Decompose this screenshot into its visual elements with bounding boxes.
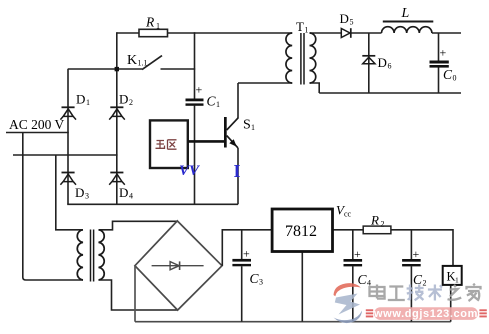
svg-text:7812: 7812 [285, 223, 317, 240]
diode D5 [341, 28, 351, 38]
svg-text:D: D [378, 55, 387, 70]
watermark text gong (work) [388, 287, 405, 301]
svg-text:R: R [145, 15, 155, 30]
watermark text ji (skill) [407, 285, 424, 301]
wire C2 tee lower [410, 266, 412, 321]
svg-text:3: 3 [85, 192, 89, 201]
regulator U1 7812 box [272, 209, 332, 252]
svg-text:0: 0 [453, 74, 457, 83]
wire ground rail bottom [135, 321, 451, 323]
switch K1.1 arm [142, 56, 162, 70]
wire top bus left segment [117, 32, 139, 34]
wire right node vertical below C1 [194, 106, 196, 205]
svg-text:VV: VV [179, 163, 201, 179]
svg-text:K: K [127, 53, 137, 68]
diode D6 [362, 56, 375, 64]
capacitor C4 plates [344, 259, 363, 262]
watermark logo swirl [334, 283, 363, 323]
diode D3 [60, 173, 76, 185]
svg-text:D: D [75, 185, 84, 200]
transistor S1 emitter arrowhead [229, 139, 237, 147]
watermark right menu mark [479, 309, 486, 317]
wire C4 tee lower [352, 266, 354, 321]
watermark left menu mark [366, 309, 373, 317]
wire node A vertical [116, 32, 118, 69]
wire right node vertical above C1 [194, 32, 196, 98]
wire D5 to L [351, 32, 382, 34]
drive block text (qu dong) [156, 140, 177, 149]
svg-text:I: I [234, 161, 241, 181]
wire T1 secondary top to D5 [310, 32, 342, 34]
svg-text:cc: cc [344, 210, 352, 219]
resistor R1 [139, 29, 168, 36]
wire negative rail to emitter [67, 203, 238, 205]
svg-text:R: R [370, 213, 379, 228]
wire 7812 output to R2 [333, 229, 364, 231]
svg-text:S: S [243, 118, 251, 133]
wire C2 tee upper [410, 230, 412, 259]
svg-text:5: 5 [350, 18, 354, 27]
inductor L core bar [383, 21, 434, 23]
svg-text:D: D [340, 11, 349, 26]
bridge rectifier diamond [135, 221, 222, 310]
transformer T1 core [301, 33, 304, 85]
capacitor C2 plates [402, 259, 421, 262]
watermark text shu (craft) [428, 285, 442, 301]
capacitor C3 plates [232, 259, 251, 262]
svg-text:2: 2 [381, 220, 385, 229]
watermark text dian (electric) [370, 285, 385, 299]
wire aux secondary bottom to bridge bottom corner [99, 280, 178, 310]
capacitor C0 plates [430, 61, 449, 64]
svg-text:4: 4 [129, 192, 133, 201]
resistor R2 [363, 226, 391, 234]
wire bridge right corner to regulator input [222, 230, 272, 266]
transformer T1 primary winding [286, 33, 292, 83]
wire T1 primary bottom to S1 collector [238, 82, 292, 84]
wire bridge left leg D1 D3 [67, 69, 69, 204]
svg-text:D: D [119, 185, 128, 200]
wire output top after L [432, 32, 461, 34]
svg-text:D: D [76, 92, 85, 107]
bridge rectifier inner diode [152, 261, 204, 270]
svg-text:+: + [196, 83, 203, 97]
watermark text zhi (of) [448, 285, 462, 300]
wire S1 collector vertical [237, 83, 239, 118]
wire C0 vertical upper [438, 33, 440, 61]
svg-text:2: 2 [129, 98, 133, 107]
svg-text:D: D [119, 92, 128, 107]
diode D2 [109, 107, 125, 119]
transistor S1 emitter stroke [227, 136, 238, 148]
watermark text jia (home) [467, 284, 481, 301]
wire output bottom rail [319, 92, 461, 94]
svg-text:C: C [413, 272, 423, 287]
svg-text:T: T [296, 19, 304, 34]
svg-text:C: C [358, 272, 368, 287]
transistor S1 base wire [188, 140, 224, 143]
wire R2 to K1 corner [391, 230, 453, 266]
diode D1 [60, 107, 76, 119]
svg-text:1: 1 [305, 26, 309, 35]
svg-text:www.dgjs123.com: www.dgjs123.com [373, 308, 478, 320]
transistor S1 collector stroke [227, 118, 239, 130]
wire S1 emitter vertical [237, 148, 239, 204]
svg-text:1: 1 [251, 123, 255, 132]
wire AC input line 1 [6, 132, 69, 134]
wire AC input line 2 [13, 154, 118, 156]
inductor L winding [382, 27, 432, 33]
transformer T2 core [91, 230, 94, 282]
wire bridge left corner to ground rail [134, 266, 136, 322]
svg-text:C: C [207, 94, 217, 109]
drive block box [150, 120, 188, 168]
wire C0 vertical lower [438, 68, 440, 94]
wire K1 bottom pin [450, 285, 452, 322]
svg-text:C: C [250, 271, 260, 286]
wire 7812 ground pin [301, 252, 303, 322]
svg-text:3: 3 [259, 278, 263, 287]
transformer T2 secondary winding [99, 230, 105, 280]
svg-text:1: 1 [455, 276, 459, 285]
svg-text:AC 200 V: AC 200 V [9, 117, 65, 132]
svg-text:1: 1 [86, 98, 90, 107]
wire C4 tee upper [352, 230, 354, 259]
transistor S1 base bar [224, 117, 227, 148]
svg-text:1.1: 1.1 [138, 59, 148, 68]
wire top bus right segment to T1 [168, 32, 293, 34]
svg-text:1: 1 [156, 22, 160, 31]
svg-text:C: C [443, 67, 453, 82]
svg-text:1: 1 [216, 100, 220, 109]
wire D6 branch vertical [368, 33, 370, 93]
wire AC terminal 1 down to aux primary bottom [23, 133, 83, 281]
transformer T1 secondary winding [310, 33, 316, 83]
wire T1 secondary bottom step [310, 83, 320, 93]
wire switch branch right contact [161, 68, 196, 70]
svg-text:+: + [243, 247, 250, 261]
svg-text:2: 2 [423, 279, 427, 288]
wire AC terminal 2 down to aux primary top [56, 155, 83, 230]
svg-text:6: 6 [388, 62, 392, 71]
relay coil K1 box [443, 266, 462, 285]
diode D4 [109, 173, 125, 185]
wire bridge right leg D2 D4 [116, 69, 118, 204]
transformer T2 primary winding [77, 230, 83, 280]
wire C3 tee upper [241, 230, 243, 259]
wire C3 tee lower [241, 266, 243, 321]
watermark url pill [373, 307, 478, 320]
capacitor C1 plates [186, 99, 204, 102]
wire switch branch left [68, 68, 142, 70]
svg-text:+: + [413, 247, 420, 261]
junction node dot [115, 67, 119, 71]
svg-text:L: L [401, 6, 410, 21]
svg-text:+: + [354, 247, 361, 261]
wire aux secondary top to bridge apex [99, 221, 178, 230]
svg-text:+: + [440, 46, 447, 60]
